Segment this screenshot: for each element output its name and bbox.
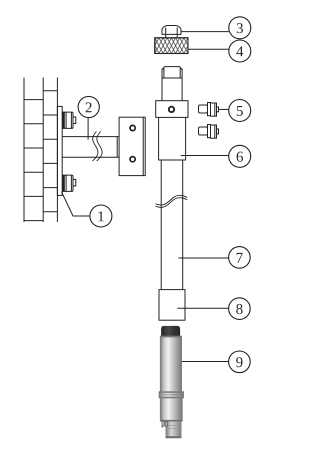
bolt 1 head xyxy=(64,175,73,191)
leader 2 xyxy=(87,118,89,140)
number 6 xyxy=(237,152,243,162)
set bolt 5 lower: head xyxy=(211,125,217,138)
antenna 9: main body xyxy=(160,336,182,392)
collar hole xyxy=(169,107,174,112)
pole bracket plate thickness line xyxy=(142,117,144,175)
callout circle 1 xyxy=(90,205,112,227)
wall vertical line left xyxy=(23,78,25,223)
callout circle 2 xyxy=(78,96,99,117)
bolt 2 head xyxy=(64,112,73,128)
bolt 1 head facet lines xyxy=(66,175,71,191)
leader 3 xyxy=(181,31,229,33)
wall vertical line middle xyxy=(42,78,44,223)
arm (horizontal pipe) xyxy=(62,137,119,158)
set bolt 5 upper: head facet xyxy=(214,103,216,116)
set bolt 5 lower: head facet xyxy=(214,125,216,138)
mast top inner lines xyxy=(162,68,182,78)
number 3 xyxy=(237,23,243,33)
set bolt 5 upper: head xyxy=(211,103,217,116)
arm end cap line xyxy=(116,137,118,158)
pole bracket hole lower xyxy=(130,157,135,162)
callout circle 7 xyxy=(229,247,251,269)
antenna 9: stub thread lines xyxy=(166,426,181,429)
bolt 2 shank nub xyxy=(73,117,76,124)
number 4 xyxy=(236,46,243,56)
antenna 9: body top shadow xyxy=(160,336,182,337)
number 5 xyxy=(237,106,243,116)
wall mounting plate xyxy=(57,106,62,195)
wall course lines column 1 xyxy=(24,100,43,221)
antenna 9: second contact tab xyxy=(165,421,167,426)
clamp collar 6 xyxy=(156,101,188,118)
leader 6 xyxy=(181,155,229,157)
number 1 xyxy=(98,211,103,221)
antenna 9: bottom stub xyxy=(166,421,181,438)
bolt 2 washer (dark band) xyxy=(63,112,64,128)
callout circle 5 xyxy=(229,100,251,122)
set bolt 5 upper: nub xyxy=(217,107,219,112)
bolt 2 head facet lines xyxy=(66,112,71,128)
antenna 9: contact tab xyxy=(162,421,165,427)
callout circle 8 xyxy=(229,298,251,320)
pole bracket plate xyxy=(119,117,145,175)
set bolt 5 lower: flange xyxy=(208,125,211,138)
antenna 9: top cap xyxy=(161,326,180,336)
callout circle 6 xyxy=(229,145,251,167)
leader 4 xyxy=(188,48,229,50)
wall course lines column 2 xyxy=(43,91,57,212)
wall vertical line right xyxy=(56,78,58,223)
leader 9 xyxy=(182,361,229,363)
sleeve below collar xyxy=(159,117,186,160)
leader 1 xyxy=(62,192,90,216)
set bolt 5 upper: flange xyxy=(208,103,211,116)
callout circle 3 xyxy=(229,17,251,39)
antenna 9: flange ring xyxy=(159,392,184,399)
cap 3 neck xyxy=(166,34,178,37)
cap 3 inner facet lines xyxy=(166,28,178,35)
callout circle 9 xyxy=(229,351,251,373)
tube break symbol xyxy=(156,195,188,205)
bolt 1 washer (dark band) xyxy=(63,175,64,191)
antenna 9: lower body xyxy=(160,398,182,421)
leader 7 xyxy=(178,257,228,259)
cap 3 dome xyxy=(162,26,181,35)
set bolt 5 upper: shank xyxy=(199,105,208,113)
antenna 9: lower body bottom shadow xyxy=(160,420,182,421)
antenna 9: stub bottom edge xyxy=(166,436,181,438)
leader 8 xyxy=(178,307,229,309)
mast tube 7 xyxy=(161,160,183,290)
number 7 xyxy=(237,253,243,263)
set bolt 5 lower: shank xyxy=(199,127,208,135)
knurled nut 4 xyxy=(155,38,188,54)
number 8 xyxy=(236,304,242,314)
set bolt 5 lower: nub xyxy=(217,129,219,134)
leader 5 xyxy=(219,108,229,110)
coupler 8 xyxy=(159,290,185,321)
antenna 9: flange ridge lines xyxy=(159,393,184,398)
number 2 xyxy=(86,102,92,112)
bolt 1 shank nub xyxy=(73,179,76,186)
number 9 xyxy=(236,357,242,367)
mast top tube xyxy=(162,67,182,101)
pole bracket hole upper xyxy=(130,125,135,130)
arm break symbol xyxy=(93,132,98,162)
callout circle 4 xyxy=(229,40,251,62)
